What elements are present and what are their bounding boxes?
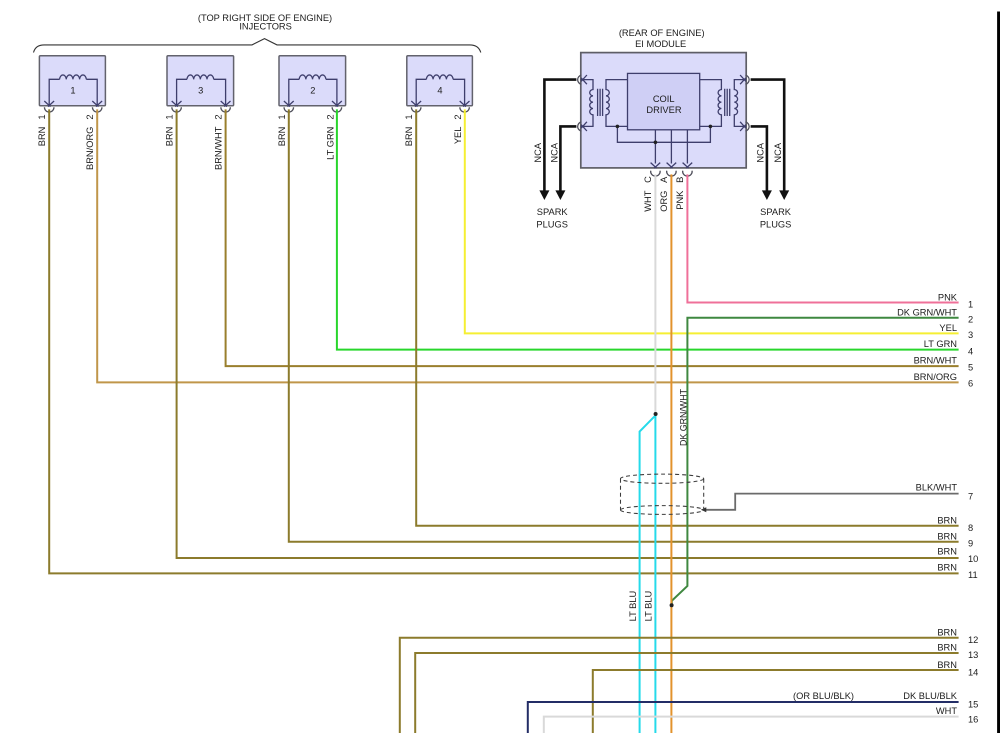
wire WHT pin C down: [654, 174, 656, 412]
svg-text:LT GRN: LT GRN: [924, 339, 957, 349]
injector 2 pin 2 connector: [332, 107, 342, 112]
spark wire left bottom: [560, 126, 576, 190]
injector 1: [39, 56, 105, 107]
svg-text:BRN: BRN: [165, 127, 175, 147]
svg-text:WHT: WHT: [936, 706, 957, 716]
svg-text:LT BLU: LT BLU: [644, 591, 654, 622]
brace over injectors: [34, 39, 481, 53]
wire PNK pin B to 1: [687, 174, 958, 302]
injector 4: [407, 56, 473, 107]
junction dot ORG DK GRN: [670, 603, 674, 607]
svg-text:C: C: [643, 176, 653, 183]
svg-text:BRN: BRN: [277, 127, 287, 147]
wire ORG pin A down: [670, 174, 672, 733]
core: [725, 89, 730, 116]
svg-text:16: 16: [968, 715, 978, 725]
svg-text:1: 1: [968, 300, 973, 310]
svg-text:INJECTORS: INJECTORS: [239, 22, 292, 32]
wire BRN/WHT inj3 pin2 to 5: [226, 109, 959, 366]
svg-text:BRN: BRN: [937, 660, 957, 670]
svg-text:15: 15: [968, 700, 978, 710]
border frame right: [997, 12, 1000, 733]
svg-text:DRIVER: DRIVER: [646, 105, 681, 115]
svg-text:B: B: [675, 177, 685, 183]
module edge connectors left: [578, 75, 582, 131]
svg-text:2: 2: [214, 114, 224, 119]
svg-text:(OR BLU/BLK): (OR BLU/BLK): [793, 691, 854, 701]
title injectors: [198, 13, 332, 32]
svg-text:BRN/ORG: BRN/ORG: [85, 127, 95, 170]
svg-text:4: 4: [968, 346, 973, 356]
junction dot WHT to LT BLU: [654, 412, 658, 416]
svg-text:ORG: ORG: [659, 191, 669, 212]
module edge arrows right: [740, 75, 746, 131]
injector 3 pin 1 connector: [172, 107, 182, 112]
module pin arrows C A B: [651, 163, 693, 169]
primary winding: [700, 80, 722, 127]
svg-text:BRN: BRN: [937, 547, 957, 557]
spark wire left top: [544, 80, 576, 191]
injector 4 pin 2 connector: [460, 107, 470, 112]
wire DK BLU/BLK 15: [528, 702, 959, 733]
svg-text:NCA: NCA: [773, 142, 783, 162]
svg-text:1: 1: [37, 114, 47, 119]
coil driver box: [628, 73, 700, 129]
svg-text:6: 6: [968, 379, 973, 389]
svg-text:3: 3: [198, 86, 203, 96]
wire BRN inj4 pin1 to 8: [416, 109, 958, 525]
right edge circuit numbers: [968, 300, 978, 725]
secondary winding: [734, 80, 746, 127]
svg-text:BRN/WHT: BRN/WHT: [214, 126, 224, 170]
svg-text:DK BLU/BLK: DK BLU/BLK: [903, 691, 958, 701]
svg-text:DK GRN/WHT: DK GRN/WHT: [897, 308, 957, 318]
svg-text:SPARK: SPARK: [537, 207, 569, 217]
wire BRN inj3 pin1 to 10: [177, 109, 959, 558]
svg-text:10: 10: [968, 554, 978, 564]
core: [598, 89, 603, 116]
wire BRN 12: [400, 638, 959, 733]
svg-text:YEL: YEL: [453, 127, 463, 145]
svg-text:2: 2: [325, 114, 335, 119]
shield (dashed cylinder): [621, 474, 704, 514]
svg-text:NCA: NCA: [550, 142, 560, 162]
junction dot bus pin C: [654, 141, 658, 145]
wire WHT 16: [544, 717, 959, 733]
right edge wire name labels: [793, 292, 958, 716]
svg-text:PNK: PNK: [938, 292, 958, 302]
svg-text:WHT: WHT: [643, 190, 653, 211]
svg-text:PLUGS: PLUGS: [536, 219, 568, 229]
wire LT BLU right: [654, 416, 656, 733]
title EI module: [619, 28, 705, 49]
svg-text:4: 4: [437, 86, 442, 96]
svg-text:1: 1: [277, 114, 287, 119]
svg-text:BRN/WHT: BRN/WHT: [914, 356, 958, 366]
svg-text:LT BLU: LT BLU: [628, 591, 638, 622]
svg-text:2: 2: [968, 314, 973, 324]
svg-text:3: 3: [968, 330, 973, 340]
wire LT GRN inj2 pin2 to 4: [337, 109, 959, 349]
svg-text:2: 2: [453, 114, 463, 119]
svg-text:SPARK: SPARK: [760, 207, 792, 217]
svg-text:BRN: BRN: [937, 627, 957, 637]
svg-text:2: 2: [310, 86, 315, 96]
injector 2: [279, 56, 346, 107]
spark arrow left outer: [539, 190, 549, 200]
svg-text:EI MODULE: EI MODULE: [635, 39, 686, 49]
svg-text:NCA: NCA: [533, 142, 543, 162]
module edge connectors right: [745, 75, 749, 131]
svg-text:BLK/WHT: BLK/WHT: [916, 483, 958, 493]
svg-text:5: 5: [968, 363, 973, 373]
arrow into shield: [701, 507, 707, 512]
svg-text:PLUGS: PLUGS: [760, 219, 792, 229]
bus under coil driver: [617, 126, 710, 163]
svg-text:(REAR OF ENGINE): (REAR OF ENGINE): [619, 28, 705, 38]
wire BRN inj2 pin1 to 9: [289, 109, 959, 541]
svg-text:BRN: BRN: [937, 563, 957, 573]
svg-text:14: 14: [968, 668, 978, 678]
svg-text:NCA: NCA: [756, 142, 766, 162]
svg-text:1: 1: [404, 114, 414, 119]
svg-text:BRN: BRN: [37, 127, 47, 147]
junction dot right primary: [709, 125, 713, 129]
spark arrow right outer: [779, 190, 789, 200]
junction dot left primary: [616, 125, 620, 129]
left transformer T1: [581, 80, 628, 127]
injector 1 pin 1 connector: [44, 107, 54, 112]
wire LT BLU left branch: [640, 416, 655, 733]
wire BRN/ORG inj1 pin2 to 6: [97, 109, 958, 382]
svg-text:11: 11: [968, 570, 978, 580]
spark wire right bottom: [751, 126, 767, 190]
svg-text:BRN: BRN: [937, 516, 957, 526]
injector 3 pin 2 connector: [221, 107, 231, 112]
SPARK PLUGS labels: [536, 207, 791, 229]
spark arrow left inner: [555, 190, 565, 200]
svg-text:COIL: COIL: [653, 94, 675, 104]
injector 3: [167, 56, 234, 107]
svg-text:BRN: BRN: [937, 642, 957, 652]
svg-text:13: 13: [968, 650, 978, 660]
svg-text:YEL: YEL: [939, 323, 957, 333]
svg-text:BRN: BRN: [404, 127, 414, 147]
wire YEL inj4 pin2 to 3: [465, 109, 959, 333]
spark wire right top: [751, 80, 785, 191]
spark arrow right inner: [762, 190, 772, 200]
injector 4 pin 1 connector: [411, 107, 421, 112]
injector 1 pin 2 connector: [92, 107, 102, 112]
svg-text:LT GRN: LT GRN: [325, 127, 335, 160]
svg-text:1: 1: [70, 86, 75, 96]
svg-text:1: 1: [165, 114, 175, 119]
svg-text:DK GRN/WHT: DK GRN/WHT: [678, 389, 688, 446]
right transformer T2: [700, 80, 747, 127]
svg-text:PNK: PNK: [675, 190, 685, 210]
wire DK GRN/WHT 2: [672, 318, 959, 605]
wire BRN 14: [593, 670, 959, 733]
svg-text:2: 2: [85, 114, 95, 119]
wire BRN 13: [415, 653, 958, 733]
svg-text:A: A: [659, 176, 669, 183]
svg-text:8: 8: [968, 523, 973, 533]
injector 2 pin 1 connector: [284, 107, 294, 112]
svg-text:9: 9: [968, 539, 973, 549]
module pin connectors C A B: [651, 171, 692, 176]
svg-text:BRN/ORG: BRN/ORG: [914, 372, 957, 382]
EI module box U1: [581, 53, 746, 168]
svg-text:7: 7: [968, 492, 973, 502]
svg-text:BRN: BRN: [937, 531, 957, 541]
module edge arrows left: [581, 75, 587, 131]
svg-text:12: 12: [968, 635, 978, 645]
wire BLK/WHT 7: [705, 494, 959, 510]
secondary winding: [581, 80, 593, 127]
primary winding: [606, 80, 628, 127]
wire BRN inj1 pin1 to 11: [49, 109, 958, 573]
